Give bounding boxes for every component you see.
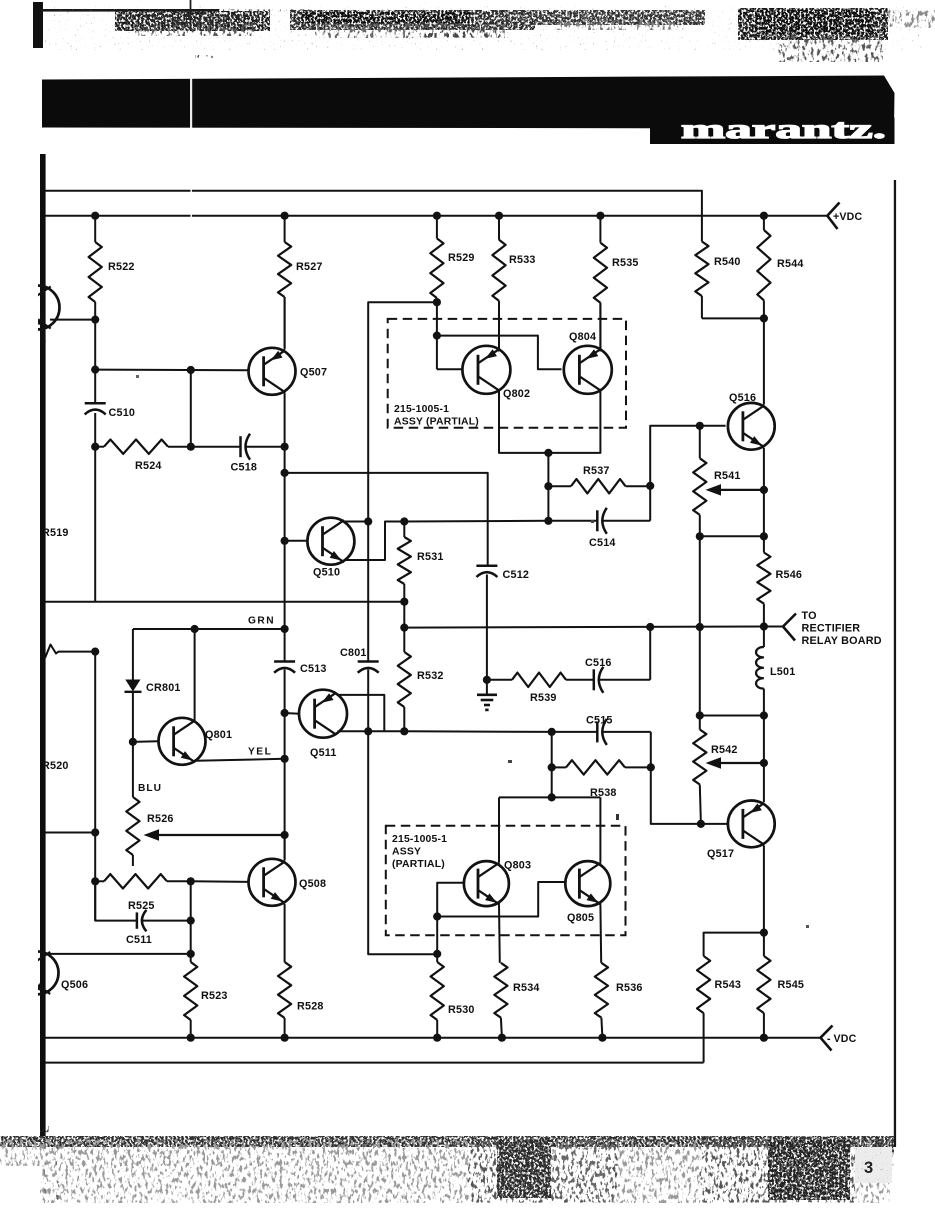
wire: y=627 line to right column (404, 627, 764, 628)
svg-text:R540: R540 (714, 256, 741, 268)
node dot (187, 443, 195, 451)
wiper arrow R541 (712, 489, 764, 491)
wire: Q511 collector elbow (338, 695, 385, 731)
dashed assembly box 215-1005-1 (upper) (388, 319, 626, 428)
node dot (544, 517, 552, 525)
transistor Q516 (728, 403, 775, 450)
scan noise: smudge band center (290, 10, 535, 30)
scan fold nick on bus lines (191, 186, 192, 220)
capacitor C516 (593, 669, 596, 690)
transistor Q506 (partial at page edge) (16, 951, 59, 994)
svg-text:C510: C510 (109, 407, 136, 419)
node dot (548, 763, 556, 771)
wire: x=284.6 vertical (y=473 to C513) (284, 473, 286, 661)
wire: R531-R532 junction (403, 602, 405, 628)
transistor Q505 (partial at page edge) (16, 286, 60, 330)
capacitor C518 (191, 446, 241, 448)
scan noise: smudge band mid-right (535, 10, 705, 25)
node dot (433, 298, 441, 306)
wire: base link to Q805 (437, 882, 565, 917)
resistor R539 (487, 679, 512, 681)
potentiometer R541 (699, 426, 701, 459)
svg-text:BLU: BLU (138, 783, 162, 794)
capacitor C511 (95, 881, 137, 920)
wire: Q802/Q804 collectors join (499, 389, 600, 453)
svg-text:RECTIFIER: RECTIFIER (802, 623, 861, 635)
resistor R528 (278, 962, 291, 1018)
capacitor C510 (94, 370, 96, 403)
wire: collectors link (499, 796, 600, 798)
wire: base link to Q804 (437, 336, 562, 370)
wire: x=284.6 vertical (C513 to Q508) (284, 670, 286, 859)
capacitor C515 (552, 731, 598, 733)
svg-text:Q516: Q516 (729, 392, 756, 404)
node dot (281, 443, 289, 451)
wire: x=437.2 down to R530 (436, 917, 438, 963)
node dot (191, 625, 199, 633)
resistor R546 (757, 553, 770, 604)
svg-text:R537: R537 (583, 465, 610, 477)
svg-text:Q802: Q802 (503, 388, 530, 400)
wire: y=473 line to C512 column (285, 473, 488, 565)
svg-text:C801: C801 (340, 647, 367, 659)
node dot (548, 793, 556, 801)
wire: Q507 emitter to R527 (284, 297, 286, 350)
svg-text:R544: R544 (777, 258, 804, 270)
transistor Q803 (464, 861, 509, 906)
svg-text:+VDC: +VDC (833, 211, 863, 223)
wire: Q510 emitter elbow to R531 top (345, 522, 405, 561)
wire: Q805 collector up (599, 797, 601, 862)
node dot (696, 711, 704, 719)
node dot (548, 728, 556, 736)
capacitor C801 (358, 660, 379, 663)
svg-text:YEL: YEL (248, 747, 272, 758)
resistor R525 (95, 880, 104, 882)
wire: Q505 to R522 node (50, 319, 95, 321)
scan noise: top-left corner bar (33, 2, 43, 48)
node dot (760, 532, 768, 540)
node dot (281, 625, 289, 633)
wire: Q516 collector up (763, 318, 765, 404)
node dot (760, 314, 768, 322)
wire: R543 top link (704, 933, 764, 956)
node dot (91, 316, 99, 324)
left page edge thick line (40, 154, 46, 1136)
node dot (400, 598, 408, 606)
svg-text:R546: R546 (776, 569, 803, 581)
node: -VDC junction dots (187, 1034, 195, 1042)
wire: y=521 link (Q510 collector to x=368 node) (345, 521, 368, 523)
wire: Q802 base stub (436, 336, 438, 370)
svg-text:R520: R520 (42, 760, 69, 772)
node dot (91, 443, 99, 451)
wire: left column x=95 down (94, 320, 96, 370)
wire: Q803 collector up (498, 797, 500, 862)
wire: y=731.3 node line (338, 730, 407, 732)
svg-text:215-1005-1: 215-1005-1 (392, 834, 447, 845)
node dot (91, 828, 99, 836)
resistor R545 (763, 933, 765, 956)
wire: link L501 R542 (700, 715, 764, 717)
resistor R530 (431, 962, 444, 1020)
page number 3 box (855, 1147, 892, 1183)
node dot (760, 929, 768, 937)
resistor R533 (498, 216, 500, 240)
svg-text:Q803: Q803 (504, 860, 531, 872)
scan noise: smudge blob right (738, 8, 888, 40)
wire: R540 link to R544 column (702, 317, 764, 319)
transistor Q802 (462, 346, 510, 394)
wire: Q507 collector down / main x=284.6 vertical (284, 393, 286, 447)
wire: C801 bottom (367, 670, 369, 732)
svg-text:-: - (827, 1033, 831, 1045)
wire: Q517 emitter feed (763, 716, 765, 764)
transistor Q511 (299, 690, 347, 738)
header black band (42, 76, 895, 129)
node dot (647, 763, 655, 771)
scan noise: bottom dark cluster right (700, 1140, 855, 1202)
wire: R529 node into Q802/Q804 bases (436, 302, 438, 335)
svg-text:ASSY: ASSY (392, 847, 421, 858)
resistor R543 (697, 956, 710, 1013)
node: bus junction dots (91, 212, 99, 220)
scan noise: smudge band left (115, 11, 270, 31)
diode CR801 (132, 629, 134, 680)
wire: long y=601.7 line (45, 601, 404, 603)
node dot (364, 517, 372, 525)
node dot (281, 709, 289, 717)
wire: collector node down to R537 (547, 453, 549, 521)
svg-text:3: 3 (864, 1159, 873, 1177)
wiper arrow R526 (150, 834, 285, 836)
node dot (187, 950, 195, 958)
wire: Q516 emitter down (763, 448, 765, 536)
node dot (91, 877, 99, 885)
wire: x=190.8 vertical (190, 370, 192, 447)
wire: second bottom line (45, 1062, 704, 1064)
wire: x=368 long vertical to bottom (368, 731, 437, 954)
svg-text:ASSY (PARTIAL): ASSY (PARTIAL) (394, 417, 479, 428)
wire: YEL line (Q801 emitter) (196, 759, 285, 761)
dashed assembly box 215-1005-1 (lower) (386, 826, 626, 936)
scan noise: small marks under band (195, 55, 213, 58)
wire: x=368 vertical (R529 node to C801) (368, 302, 437, 661)
node dot (91, 648, 99, 656)
resistor R529 (436, 216, 438, 239)
node dot (760, 486, 768, 494)
transistor Q510 (307, 518, 354, 565)
connector fork +VDC (827, 203, 839, 216)
svg-text:R539: R539 (530, 692, 557, 704)
svg-text:Q801: Q801 (205, 729, 232, 741)
svg-text:R522: R522 (108, 261, 135, 273)
capacitor C514 (548, 520, 597, 522)
resistor R540 (695, 242, 708, 297)
node dot (400, 624, 408, 632)
potentiometer R526 (132, 742, 134, 797)
wire: C516 up to y=627 line (649, 627, 651, 680)
scan noise: top rule line (41, 9, 219, 12)
svg-text:R534: R534 (513, 982, 540, 994)
svg-text:marantz.: marantz. (681, 114, 886, 144)
svg-text:R535: R535 (612, 257, 639, 269)
node dot (483, 676, 491, 684)
node dot (760, 711, 768, 719)
svg-text:R523: R523 (201, 990, 228, 1002)
wire: x=95 vertical lower (94, 652, 96, 921)
potentiometer R542 (693, 730, 706, 785)
resistor R523 (184, 962, 197, 1020)
svg-text:R531: R531 (417, 551, 444, 563)
node dot (696, 623, 704, 631)
svg-text:Q517: Q517 (707, 848, 734, 860)
wire: stub from page edge y=832.5 (45, 832, 95, 834)
wire: to rectifier stub (764, 626, 783, 628)
wire: Q507 base line (95, 369, 247, 372)
wire: Q508 base line (191, 880, 249, 883)
svg-text:R526: R526 (147, 813, 174, 825)
svg-text:215-1005-1: 215-1005-1 (394, 404, 449, 415)
node dot (281, 755, 289, 763)
scan noise: faint speckle across top (45, 6, 925, 50)
capacitor C512 (476, 565, 497, 568)
right border line (894, 180, 896, 1147)
resistor R534 (494, 963, 507, 1018)
wire: Q517 base stub (701, 823, 728, 825)
wire: +VDC bus (45, 215, 827, 217)
resistor R544 (763, 216, 765, 230)
scan fold dark line top (190, 0, 192, 30)
svg-text:R524: R524 (135, 460, 162, 472)
svg-text:R545: R545 (778, 979, 805, 991)
svg-text:R527: R527 (296, 261, 323, 273)
node dot (400, 517, 408, 525)
node dot (760, 622, 768, 630)
svg-text:CR801: CR801 (146, 682, 181, 694)
wire: Q801 collector to GRN (194, 629, 196, 722)
scan noise: bottom dark cluster center (468, 1140, 618, 1202)
wire: Q508 collector up to R526 wiper node (284, 835, 286, 861)
node dot (129, 738, 137, 746)
inductor L501 (763, 627, 765, 648)
svg-text:R536: R536 (616, 982, 643, 994)
svg-text:TO: TO (802, 610, 817, 622)
svg-text:RELAY BOARD: RELAY BOARD (802, 635, 882, 647)
resistor R535 (599, 216, 601, 243)
resistor R522 (94, 216, 96, 242)
wire: y=731.3 extension to C515 (404, 730, 551, 733)
resistor R524 (95, 446, 104, 448)
connector fork TO RECTIFIER (783, 614, 796, 627)
transistor Q508 (249, 859, 296, 906)
wire: GRN line (133, 628, 285, 630)
wire: x=700 vertical mid (699, 536, 701, 729)
node dot (281, 831, 289, 839)
transistor Q801 (159, 718, 206, 765)
wire: Q510 base stub (285, 540, 308, 542)
node dot (433, 912, 441, 920)
svg-text:R530: R530 (448, 1004, 475, 1016)
node dot (646, 482, 654, 490)
node dot (187, 917, 195, 925)
transistor Q804 (564, 346, 612, 394)
svg-text:5: 5 (40, 335, 46, 347)
svg-text:C516: C516 (585, 657, 612, 669)
transistor Q805 (565, 861, 610, 906)
stray mark (616, 814, 619, 820)
node dot (281, 537, 289, 545)
resistor R536 (595, 963, 608, 1018)
svg-text:R528: R528 (297, 1001, 324, 1013)
ground symbol (477, 693, 497, 696)
marantz logo box (650, 118, 895, 145)
node dot (433, 332, 441, 340)
resistor R527 (284, 216, 286, 242)
wire: C512 bottom to ground node (486, 575, 488, 694)
svg-text:C514: C514 (589, 537, 616, 549)
node dot (544, 482, 552, 490)
transistor Q507 (249, 348, 296, 395)
node dot (187, 877, 195, 885)
wire: Q801 base stub (133, 740, 158, 743)
svg-text:R529: R529 (448, 252, 475, 264)
wire: -VDC bus (45, 1037, 821, 1039)
wire: Q511 base stub (285, 712, 300, 715)
node dot (697, 820, 705, 828)
resistor R537 (548, 485, 571, 487)
svg-text:C518: C518 (231, 462, 258, 474)
node dot (400, 727, 408, 735)
node dot (760, 759, 768, 767)
wire: Q803 base network (437, 883, 463, 917)
svg-text:VDC: VDC (834, 1033, 857, 1045)
wire: Q803 emitter down to R534 (498, 905, 501, 963)
svg-text:C515: C515 (586, 715, 613, 727)
wire: x=551.7 vertical (551, 732, 553, 798)
svg-text:R542: R542 (711, 744, 738, 756)
wire: x=650.8 vertical to Q517 base (651, 732, 701, 824)
node dot (281, 469, 289, 477)
svg-text:R525: R525 (128, 900, 155, 912)
svg-text:Q805: Q805 (567, 912, 594, 924)
svg-text:Q506: Q506 (61, 979, 88, 991)
wire: top horizontal line (45, 190, 700, 192)
svg-text:Q510: Q510 (313, 567, 340, 579)
node dot (364, 727, 372, 735)
wire: Q517 collector down (763, 846, 765, 933)
transistor Q517 (728, 801, 775, 848)
node dot (433, 950, 441, 958)
wiper arrow R542 (712, 762, 764, 764)
svg-text:Q804: Q804 (569, 331, 596, 343)
node dot (91, 366, 99, 374)
svg-text:L501: L501 (770, 666, 795, 678)
svg-text:Q508: Q508 (299, 878, 326, 890)
resistor R538 (552, 766, 566, 768)
node dot (187, 366, 195, 374)
wire: crossing jump wire from page edge (45, 645, 95, 659)
connector fork -VDC (821, 1026, 833, 1038)
svg-text:R533: R533 (509, 254, 536, 266)
wire: Q802 emitter up to R533 (498, 301, 500, 351)
node dot (544, 449, 552, 457)
node dot (696, 422, 704, 430)
wire: y=521 to R537 node (404, 520, 548, 523)
svg-text:C512: C512 (503, 569, 530, 581)
capacitor C513 (274, 660, 295, 663)
wire: Q805 emitter down to R536 (599, 905, 602, 963)
node dot (646, 623, 654, 631)
svg-text:Q511: Q511 (310, 747, 337, 759)
svg-text:R532: R532 (417, 670, 444, 682)
wire: x=190.7 vertical (190, 881, 192, 962)
wire: R540 feed from top line (700, 191, 702, 242)
scan noise: bottom left streaks (44, 1140, 46, 1200)
wire: Q508 emitter down to R528 (284, 904, 286, 962)
svg-text:Q507: Q507 (300, 367, 327, 379)
resistor R531 (403, 522, 405, 538)
svg-text:R519: R519 (42, 527, 69, 539)
wire: x=650 vertical to Q516 base (650, 426, 725, 521)
svg-text:C513: C513 (300, 663, 327, 675)
wire: x=95 vertical to GRN line region (94, 447, 96, 602)
scan fold white line (190, 32, 192, 132)
svg-text:GRN: GRN (248, 616, 275, 627)
wire: Q804 emitter up to R535 (599, 303, 601, 351)
svg-text:R541: R541 (714, 470, 741, 482)
svg-text:C511: C511 (126, 934, 152, 946)
wire: R541 bottom link (700, 535, 764, 537)
resistor R532 (403, 628, 405, 652)
svg-text:R543: R543 (715, 979, 742, 991)
node dot (696, 532, 704, 540)
scan noise: bottom band (0, 1136, 894, 1147)
svg-text:(PARTIAL): (PARTIAL) (392, 859, 445, 870)
wire: y=953.9 stub from page edge (45, 953, 191, 955)
